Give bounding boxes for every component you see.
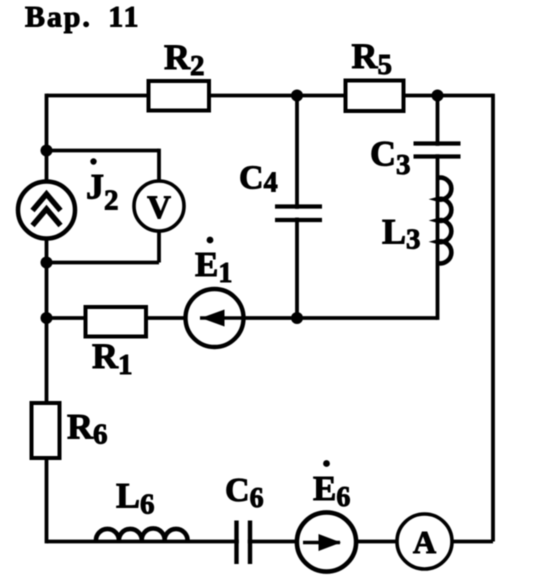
node junction dot C4 bottom <box>291 312 303 324</box>
inductor L6 <box>96 528 188 541</box>
wire right edge vertical <box>491 94 495 542</box>
capacitor C3 <box>410 144 464 157</box>
node junction dot left-middle <box>41 257 53 269</box>
wire left edge vertical <box>45 94 49 544</box>
node junction dot top at C4 branch <box>291 90 303 102</box>
node junction dot left at R1 row <box>41 312 53 324</box>
wire C4 branch vertical <box>295 96 299 319</box>
svg-text:A: A <box>413 524 436 560</box>
svg-text:Вар. 11: Вар. 11 <box>25 1 140 34</box>
label J2 with dot <box>86 158 119 216</box>
resistor R1 <box>86 307 147 337</box>
ammeter A <box>397 514 452 569</box>
wire J2-V loop top <box>47 149 160 153</box>
emf source E6 <box>297 512 356 571</box>
wire middle horizontal R1-E1 row <box>47 316 438 320</box>
wire bottom horizontal <box>47 540 494 544</box>
resistor R6 <box>32 403 60 458</box>
svg-text:V: V <box>147 190 171 226</box>
wire J2-V loop bottom <box>47 261 160 265</box>
node junction dot top-left <box>41 145 53 157</box>
capacitor C6 <box>237 521 251 565</box>
resistor R2 <box>149 81 210 111</box>
wire C3-L3 branch vertical <box>436 96 440 320</box>
capacitor C4 <box>272 207 325 221</box>
current source J2 <box>18 182 75 239</box>
node junction dot top at C3 branch <box>432 90 444 102</box>
voltmeter V <box>134 181 184 231</box>
resistor R5 <box>346 81 404 112</box>
wire top horizontal <box>47 94 494 98</box>
label E6 with dot <box>313 460 350 513</box>
label E1 with dot <box>195 237 232 289</box>
emf source E1 <box>186 289 244 347</box>
inductor L3 <box>438 178 452 264</box>
wire V branch vertical <box>157 149 161 263</box>
